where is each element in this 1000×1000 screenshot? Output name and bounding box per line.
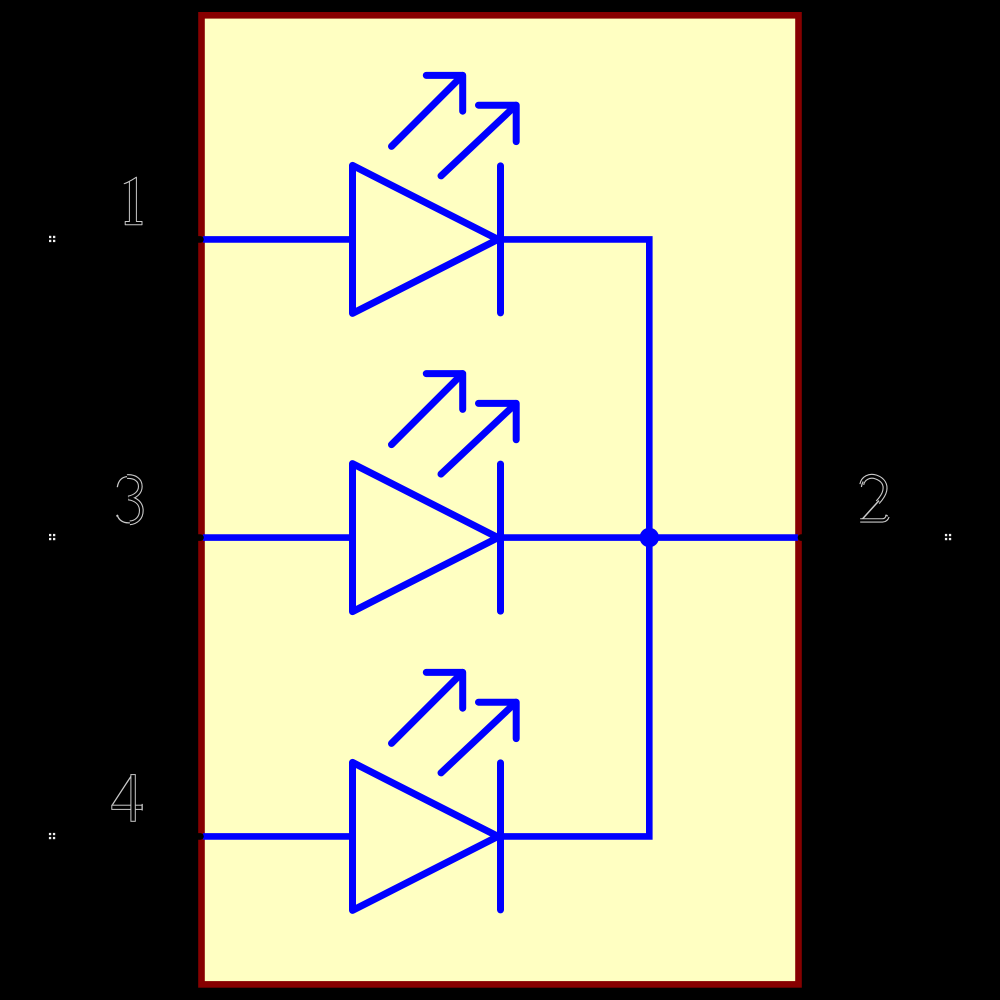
pin number 1 bbox=[124, 177, 142, 225]
wire pin3 to D2 anode bbox=[203, 534, 354, 541]
pin number 4 bbox=[112, 775, 142, 822]
component body box bbox=[202, 15, 799, 984]
LED D1 bbox=[353, 75, 517, 313]
pin 3 end marker bbox=[49, 534, 55, 540]
pin 3 line bbox=[60, 534, 201, 541]
pin 1 end marker bbox=[49, 236, 55, 242]
pin 2 line bbox=[801, 534, 940, 541]
wire D2 cathode to pin2 bbox=[501, 534, 799, 541]
wire D1 cathode to bus to D3 cathode bbox=[501, 239, 650, 836]
pin number 2 bbox=[859, 476, 888, 521]
LED D2 bbox=[353, 374, 517, 612]
pin number 3 bbox=[116, 477, 141, 524]
pin 2 end marker bbox=[945, 534, 951, 540]
pin 4 end marker bbox=[49, 833, 55, 839]
wire pin1 to D1 anode bbox=[203, 236, 354, 243]
pin 4 line bbox=[60, 833, 201, 840]
wire pin4 to D3 anode bbox=[203, 833, 354, 840]
junction dot bbox=[640, 528, 659, 547]
LED D3 bbox=[353, 672, 517, 910]
pin 1 line (black over border) bbox=[60, 236, 201, 243]
